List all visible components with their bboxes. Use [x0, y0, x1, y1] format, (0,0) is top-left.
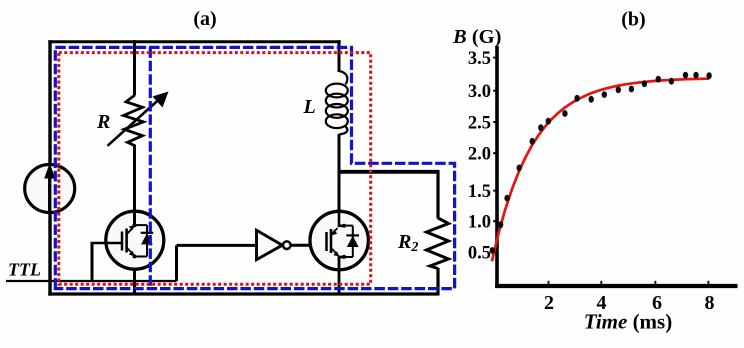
loop overlay: blue dashed divider segment	[149, 47, 152, 288]
wire: Q1 emitter to bottom rail	[133, 256, 136, 296]
current source I1	[25, 165, 75, 213]
resistor R2	[427, 218, 449, 269]
wire: bottom rail	[48, 292, 438, 295]
wire: junction to Q2	[338, 172, 341, 227]
wire: R2 top drop	[436, 170, 439, 219]
arrow over R	[108, 99, 161, 146]
svg-text:B (G): B (G)	[452, 26, 501, 48]
x axis	[495, 284, 737, 288]
wire: inverter input riser	[175, 245, 178, 281]
wire: top rail	[48, 40, 340, 43]
wire: Q2 emitter down	[339, 257, 344, 296]
wire: R to Q1	[133, 145, 136, 227]
svg-text:R: R	[96, 111, 110, 133]
svg-text:2: 2	[544, 292, 554, 314]
x tick labels	[544, 292, 715, 314]
loop overlay: blue dashed outer loop	[55, 47, 454, 288]
wire: inverter input	[177, 244, 257, 247]
svg-text:Time (ms): Time (ms)	[584, 310, 672, 334]
wire: inverter output to Q2 gate	[291, 244, 326, 247]
loop overlay: red dotted loop	[59, 53, 371, 285]
fit curve	[492, 79, 709, 262]
wire: left vertical	[48, 40, 51, 295]
wire: Q1 gate lead	[91, 242, 123, 245]
svg-text:2.0: 2.0	[468, 145, 491, 165]
transistor Q1 (IGBT)	[106, 211, 164, 269]
svg-text:2.5: 2.5	[468, 114, 491, 134]
wire: R2 bottom	[436, 268, 439, 296]
y tick labels	[468, 49, 491, 264]
inductor L	[326, 71, 348, 135]
wire: TTL line	[6, 280, 177, 282]
wire: R branch top	[133, 40, 136, 95]
svg-text:(a): (a)	[193, 8, 216, 30]
wire: junction to R2	[338, 170, 439, 174]
resistor R (variable)	[124, 95, 144, 145]
svg-text:TTL: TTL	[8, 260, 41, 280]
data points	[490, 247, 495, 254]
wire: L branch top	[338, 40, 341, 72]
y axis	[495, 46, 499, 288]
svg-text:L: L	[303, 96, 316, 118]
inverter U1	[257, 230, 283, 259]
svg-text:0.5: 0.5	[468, 244, 491, 264]
svg-text:8: 8	[705, 292, 715, 314]
svg-text:(b): (b)	[621, 9, 645, 31]
x ticks	[549, 281, 709, 285]
svg-text:1.5: 1.5	[468, 182, 491, 202]
svg-text:3.0: 3.0	[468, 82, 491, 102]
svg-text:1.0: 1.0	[468, 213, 491, 233]
svg-text:3.5: 3.5	[468, 49, 491, 69]
wire: Q1 gate riser	[91, 243, 94, 281]
y ticks	[493, 58, 497, 253]
transistor Q2 (IGBT)	[310, 211, 368, 269]
wire: L to junction	[338, 134, 341, 173]
